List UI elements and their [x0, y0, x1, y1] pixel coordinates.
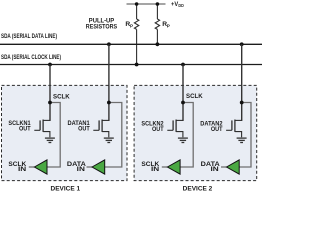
svg-text:SDA (SERIAL DATA LINE): SDA (SERIAL DATA LINE) — [1, 33, 57, 40]
transistor DATAN2 — [226, 120, 242, 138]
junction dot SCL/device1 — [48, 63, 52, 67]
svg-text:OUT: OUT — [211, 126, 223, 133]
resistor RP (right, SDA pull-up) — [155, 4, 159, 44]
device 2 box — [134, 85, 257, 180]
svg-text:DEVICE 2: DEVICE 2 — [183, 185, 213, 192]
svg-text:SCLK: SCLK — [53, 94, 70, 101]
DATA IN label (device 2) — [201, 161, 221, 173]
junction dot SCL/device2 — [181, 63, 185, 67]
DATAN1 OUT label — [68, 120, 91, 132]
svg-text:DEVICE 1: DEVICE 1 — [51, 185, 81, 192]
junction node SCLK (device 1) — [48, 101, 52, 105]
svg-text:IN: IN — [151, 166, 160, 173]
label RP (left) — [125, 21, 133, 29]
wire buffer output lead (DATA IN, device 2) — [221, 166, 227, 168]
+VDD rail wire — [127, 3, 166, 5]
junction node SCLK (device 2) — [181, 101, 185, 105]
node DATA vertical wire (device 1) — [108, 44, 110, 121]
node SCLK vertical wire (device 1) — [49, 65, 51, 121]
svg-text:IN: IN — [18, 166, 27, 173]
junction dot SCL/RP — [135, 63, 139, 67]
transistor SCLKN1 — [34, 120, 50, 138]
svg-text:OUT: OUT — [19, 126, 31, 133]
transistor DATAN1 — [93, 120, 109, 138]
buffer DATA IN (device 2) — [227, 160, 240, 174]
buffer SCLK IN (device 1) — [34, 160, 47, 174]
svg-text:RESISTORS: RESISTORS — [86, 24, 118, 31]
wire SCLK branch to buffer (device 1) — [47, 103, 60, 168]
SCLKN2 OUT label — [141, 121, 164, 133]
svg-text:IN: IN — [77, 166, 86, 173]
wire buffer output lead (SCLK IN, device 2) — [162, 166, 168, 168]
junction dot SDA/device2 — [240, 42, 244, 46]
ground (SCLKN2 source) — [178, 138, 188, 142]
buffer DATA IN (device 1) — [92, 160, 105, 174]
svg-text:DD: DD — [178, 3, 184, 8]
node SCLK vertical wire (device 2) — [182, 65, 184, 121]
wire buffer output lead (SCLK IN, device 1) — [29, 166, 35, 168]
wire DATA branch to buffer (device 2) — [239, 103, 251, 168]
resistor RP (left, SCL pull-up) — [134, 4, 138, 65]
DATAN2 OUT label — [200, 121, 223, 133]
junction dot SDA/device1 — [107, 42, 111, 46]
DATA IN label (device 1) — [67, 161, 87, 173]
svg-text:P: P — [130, 23, 133, 28]
+VDD label — [171, 1, 184, 8]
svg-text:SDA (SERIAL CLOCK LINE): SDA (SERIAL CLOCK LINE) — [1, 54, 61, 61]
junction dot SDA/RP — [156, 42, 160, 46]
svg-text:SCLK: SCLK — [186, 93, 203, 100]
wire DATA branch to buffer (device 1) — [105, 103, 122, 168]
svg-text:P: P — [167, 23, 170, 28]
ground (DATAN2 source) — [237, 138, 247, 142]
wire SCLK branch to buffer (device 2) — [180, 103, 193, 168]
ground (SCLKN1 source) — [45, 138, 55, 142]
svg-text:IN: IN — [211, 166, 220, 173]
svg-text:OUT: OUT — [152, 126, 164, 133]
svg-text:OUT: OUT — [78, 126, 90, 133]
buffer SCLK IN (device 2) — [167, 160, 180, 174]
junction dot VDD/RP-left — [135, 2, 139, 6]
PULL-UP RESISTORS label — [86, 18, 118, 31]
transistor SCLKN2 — [167, 120, 183, 138]
wire buffer output lead (DATA IN, device 1) — [87, 166, 93, 168]
label RP (right) — [162, 21, 170, 29]
node DATA vertical wire (device 2) — [241, 44, 243, 121]
SCLK IN label (device 2) — [141, 161, 160, 173]
SCL bus wire — [0, 64, 262, 66]
junction node DATA (device 2) — [240, 101, 244, 105]
junction node DATA (device 1) — [107, 101, 111, 105]
ground (DATAN1 source) — [104, 138, 114, 142]
SCLK IN label (device 1) — [8, 161, 27, 173]
SDA bus wire — [0, 43, 262, 45]
junction dot VDD/RP-right — [156, 2, 160, 6]
SCLKN1 OUT label — [8, 120, 31, 132]
device 1 box — [2, 85, 128, 180]
